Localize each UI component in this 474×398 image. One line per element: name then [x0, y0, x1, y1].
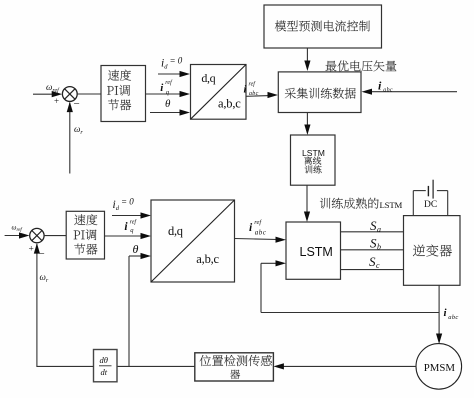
summing junction S2 (lower)	[30, 228, 44, 242]
wire: i_abc feedback into LSTM (from inverter output junction)	[261, 262, 278, 264]
svg-text:dt: dt	[101, 367, 108, 377]
wire: gate signal S_a	[341, 231, 404, 233]
wire: top PI output i_q^ref into dq/abc block	[146, 93, 183, 95]
svg-text:+: +	[54, 96, 59, 106]
wire: measured i_abc into data collection from right	[371, 91, 457, 93]
wire: top i_abc^ref from dq/abc to data collection block	[246, 95, 270, 98]
block: top speed PI regulator (su du PI tiao jie qi)	[101, 66, 146, 122]
svg-text:LSTM: LSTM	[302, 148, 325, 158]
svg-text:abc: abc	[249, 91, 259, 97]
block: position detection sensor (wei zhi jian ce chuan gan qi)	[195, 353, 274, 381]
wire: i_d*=0 stub into top dq/abc block	[158, 73, 182, 75]
svg-text:a,b,c: a,b,c	[218, 97, 241, 111]
label: i_q^ref (top)	[160, 79, 173, 96]
block: top dq to abc coordinate transform	[191, 65, 247, 120]
DC source: left drop wire into inverter	[412, 191, 414, 216]
diagonal of top dq/abc block	[191, 65, 247, 120]
svg-text:a,b,c: a,b,c	[196, 252, 219, 266]
DC source: left horizontal wire	[413, 190, 426, 192]
block: d theta / d t differentiator	[94, 350, 118, 382]
label: i_abc^ref (top)	[244, 81, 259, 98]
block: model predictive current control (mo xing yu ce dian liu kong zhi)	[264, 5, 382, 48]
wire: lower speed feedback riser into S2	[36, 244, 38, 366]
svg-text:PMSM: PMSM	[424, 362, 456, 374]
wire: S2 to lower PI regulator	[44, 235, 66, 237]
svg-text:d,q: d,q	[168, 224, 184, 238]
svg-text:−: −	[74, 98, 80, 110]
DC source: right drop wire into inverter	[447, 191, 449, 216]
label: trained LSTM (xun lian cheng shu de LSTM)	[320, 198, 379, 209]
svg-text:i: i	[244, 85, 247, 96]
svg-text:θ: θ	[165, 98, 171, 110]
svg-text:LSTM: LSTM	[380, 200, 403, 210]
svg-text:abc: abc	[448, 314, 458, 321]
svg-text:abc: abc	[383, 87, 393, 93]
block: LSTM controller	[286, 222, 341, 279]
wire: gate signal S_b	[341, 249, 404, 251]
wire: lower PI output i_q^ref into dq/abc block	[105, 235, 144, 237]
wire: MPC block down to data collection	[306, 48, 308, 63]
svg-text:+: +	[29, 245, 34, 255]
DC source: long battery plate	[432, 180, 434, 199]
wire: theta riser up to lower dq/abc block	[128, 256, 130, 366]
wire: lower speed reference input	[5, 235, 21, 237]
diagonal of lower dq/abc block	[151, 200, 235, 282]
label: optimal voltage vector (zui you dian ya shi liang)	[326, 60, 397, 71]
svg-text:−: −	[39, 248, 45, 260]
wire: top speed reference input	[33, 93, 53, 95]
wire: i_abc^ref from lower dq/abc into LSTM	[235, 239, 279, 240]
wire: i_d*=0 stub into lower dq/abc block	[112, 215, 143, 217]
label: i_abc (inverter output)	[444, 307, 459, 321]
label: i_abc (top right)	[378, 79, 393, 94]
wire: inverter output down to PMSM	[438, 285, 440, 336]
wire: gate signal S_c	[341, 269, 404, 271]
wire: sensor to d(theta)/dt block	[117, 365, 195, 367]
wire: offline training down into trained LSTM block	[306, 185, 308, 214]
DC source: short battery plate	[427, 186, 429, 196]
wire: theta stub into top dq/abc block	[150, 112, 182, 114]
summing junction S1 (top)	[62, 87, 77, 102]
svg-text:abc: abc	[255, 228, 267, 236]
wire: d(theta)/dt to lower feedback corner	[36, 365, 93, 367]
machine: PMSM motor circle	[416, 344, 462, 390]
svg-text:d,q: d,q	[201, 71, 215, 85]
svg-text:DC: DC	[424, 200, 437, 210]
label: i_q^ref (lower)	[124, 218, 137, 234]
svg-text:ref: ref	[254, 219, 262, 226]
svg-text:LSTM: LSTM	[300, 245, 333, 259]
block: lower speed PI regulator	[66, 211, 104, 259]
wire: top speed feedback (omega_r) into S1	[69, 103, 71, 174]
wire: S1 to top PI regulator	[77, 93, 101, 95]
DC source: right horizontal wire	[437, 190, 448, 192]
block: collect training data (cai ji xun lian shu ju)	[278, 72, 361, 113]
wire: PMSM to position sensor	[283, 365, 416, 367]
label: i_abc^ref (lower)	[249, 219, 267, 237]
block: inverter (ni bian qi)	[404, 216, 461, 286]
wire: data collection down to LSTM offline training	[306, 113, 308, 128]
svg-text:θ: θ	[133, 242, 139, 256]
block: LSTM offline training (LSTM li xian xun lian)	[291, 135, 336, 185]
block: lower dq to abc coordinate transform	[151, 200, 235, 282]
svg-text:dθ: dθ	[100, 355, 108, 365]
